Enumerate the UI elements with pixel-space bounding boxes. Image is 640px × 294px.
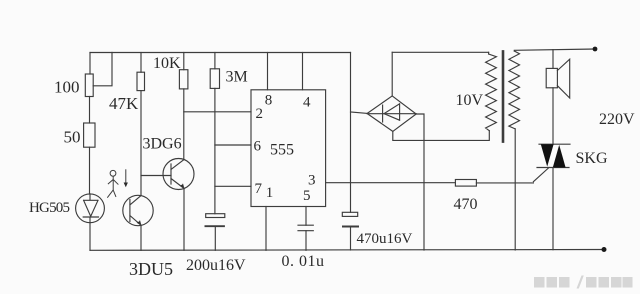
node dot bottom right — [602, 247, 607, 252]
wire winding bottom to ground — [514, 129, 516, 250]
transistor 3DG6 — [163, 159, 194, 190]
svg-text:3: 3 — [308, 173, 316, 189]
wire resistor 100 tap — [93, 53, 112, 86]
wire triac to ground — [552, 168, 554, 250]
svg-text:220V: 220V — [599, 111, 635, 128]
wire pin3 output — [326, 182, 456, 184]
resistor 50 — [84, 123, 95, 147]
wire to bridge left — [351, 112, 368, 113]
wire pin7 — [215, 185, 251, 187]
transformer winding secondary — [509, 51, 520, 129]
transformer core — [502, 51, 505, 141]
photodiode HG505 — [76, 194, 105, 223]
wire pin6 — [215, 144, 251, 146]
resistor 100 — [85, 74, 93, 97]
svg-text:10V: 10V — [456, 92, 484, 109]
resistor 3M — [214, 53, 216, 69]
wire speaker drop — [552, 50, 554, 69]
wire pin2 — [184, 111, 251, 113]
IC 555 — [251, 90, 326, 207]
bridge rectifier — [367, 96, 416, 131]
svg-text:7: 7 — [255, 181, 263, 197]
svg-text:50: 50 — [64, 128, 81, 147]
svg-text:2: 2 — [256, 106, 264, 122]
wire pin5 — [305, 207, 307, 226]
svg-text:555: 555 — [270, 142, 294, 159]
svg-text:3DG6: 3DG6 — [143, 136, 182, 153]
svg-text:3M: 3M — [226, 69, 248, 86]
wire HG505 to bottom bus — [89, 223, 91, 251]
wire pin8 — [267, 53, 269, 90]
svg-text:8: 8 — [265, 92, 273, 108]
wire left rail top — [89, 53, 91, 75]
wire speaker to triac — [552, 88, 554, 144]
wire bottom bus — [90, 249, 604, 252]
wire 3DG6 base — [141, 175, 171, 177]
wire bridge right to ground — [416, 114, 424, 250]
triac SKG — [539, 143, 570, 145]
svg-text:6: 6 — [254, 138, 262, 154]
wire DC+ rail — [350, 53, 352, 213]
capacitor 0.01u — [298, 225, 313, 231]
wire pin1 to ground — [265, 207, 267, 251]
wire bridge top — [391, 52, 393, 96]
capacitor 200u16V — [206, 214, 225, 218]
wire pin4 — [302, 53, 304, 90]
wire bridge bottom to winding — [393, 131, 490, 141]
wire top bus right section — [514, 49, 595, 51]
svg-text:1: 1 — [266, 185, 274, 201]
capacitor 470u16V — [342, 212, 357, 216]
resistor 47K — [140, 53, 142, 73]
svg-text:470: 470 — [454, 196, 478, 213]
speaker — [546, 68, 557, 87]
svg-text:3DU5: 3DU5 — [129, 259, 173, 279]
watermark — [534, 276, 633, 289]
transformer winding 10V — [486, 54, 497, 131]
svg-text:200u16V: 200u16V — [186, 257, 246, 274]
svg-text:SKG: SKG — [576, 150, 608, 167]
wire top bus left section — [90, 52, 351, 54]
svg-text:0. 01u: 0. 01u — [282, 253, 325, 270]
svg-text:4: 4 — [303, 94, 311, 110]
phototransistor 3DU5 — [123, 195, 153, 225]
wire R50 to HG505 — [89, 147, 91, 194]
svg-text:10K: 10K — [153, 55, 181, 72]
person icon with arrow — [110, 170, 116, 176]
svg-text:HG505: HG505 — [29, 200, 69, 216]
svg-text:100: 100 — [54, 78, 80, 97]
svg-text:470u16V: 470u16V — [357, 231, 413, 247]
svg-text:5: 5 — [303, 188, 311, 204]
wire R100 to R50 — [89, 97, 91, 124]
wire top bus middle section — [392, 51, 488, 53]
svg-text:47K: 47K — [109, 94, 139, 113]
resistor 10K — [183, 53, 185, 70]
resistor 470 — [455, 180, 476, 187]
node dot top right — [593, 47, 598, 52]
